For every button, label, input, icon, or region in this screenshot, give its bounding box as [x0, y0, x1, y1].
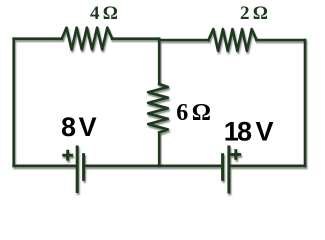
svg-text:8: 8: [237, 117, 252, 147]
battery V2 18V long plate: [227, 147, 230, 192]
battery V2 18V short plate: [221, 155, 224, 180]
wire top-left to middle node: [112, 37, 159, 40]
battery V1 plus sign: [64, 151, 72, 159]
svg-text:Ω: Ω: [103, 3, 118, 24]
wire top-right segment: [159, 39, 208, 42]
resistor R2 2Ω: [209, 29, 257, 51]
svg-text:6: 6: [176, 100, 188, 126]
svg-text:8: 8: [61, 112, 76, 142]
wire left vertical: [12, 39, 15, 166]
resistor R1 4Ω: [62, 28, 112, 50]
battery V1 8V short plate: [82, 155, 85, 180]
wire top-left segment: [14, 37, 62, 40]
svg-text:Ω: Ω: [192, 100, 211, 126]
battery V2 plus sign: [232, 151, 240, 159]
resistor R3 6Ω vertical: [148, 84, 168, 133]
svg-text:2: 2: [240, 3, 250, 24]
svg-text:4: 4: [90, 3, 100, 24]
svg-text:V: V: [256, 117, 274, 147]
battery V1 8V long plate: [76, 147, 79, 192]
wire right vertical: [304, 40, 307, 166]
wire bottom middle segment: [84, 165, 222, 168]
wire top-right to right corner: [257, 39, 306, 42]
svg-text:V: V: [79, 112, 97, 142]
svg-text:Ω: Ω: [253, 3, 268, 24]
wire bottom-right segment: [229, 165, 305, 168]
wire bottom-left segment: [14, 165, 77, 168]
node middle-top junction: [158, 39, 161, 84]
wire middle branch bottom: [158, 133, 161, 166]
